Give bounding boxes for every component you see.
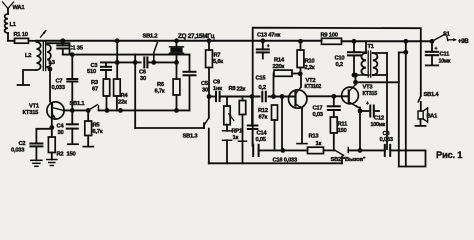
svg-text:+: + — [267, 44, 270, 50]
svg-text:R4: R4 — [121, 93, 129, 99]
svg-text:150: 150 — [338, 128, 347, 134]
svg-text:R9 100: R9 100 — [321, 33, 338, 39]
svg-text:VT3: VT3 — [363, 85, 374, 91]
svg-text:0,033: 0,033 — [380, 137, 394, 143]
svg-text:R11: R11 — [338, 122, 349, 128]
svg-text:30: 30 — [58, 130, 64, 136]
svg-text:1к: 1к — [316, 141, 322, 147]
svg-text:0,2: 0,2 — [259, 85, 266, 91]
svg-text:VT1: VT1 — [29, 104, 40, 110]
svg-text:R14: R14 — [274, 58, 285, 64]
svg-text:Т1: Т1 — [368, 44, 375, 50]
svg-text:C1 35: C1 35 — [69, 46, 84, 52]
svg-text:100мк: 100мк — [371, 122, 386, 128]
svg-text:67к: 67к — [259, 115, 268, 121]
svg-text:WA1: WA1 — [13, 5, 26, 11]
svg-text:КТ315: КТ315 — [23, 110, 40, 116]
svg-text:1к: 1к — [233, 135, 239, 141]
svg-text:0,03: 0,03 — [313, 112, 324, 118]
svg-text:C15: C15 — [256, 76, 267, 82]
svg-text:+: + — [435, 46, 438, 52]
svg-text:C2: C2 — [19, 141, 26, 147]
svg-text:30: 30 — [140, 76, 146, 82]
svg-text:6,7к: 6,7к — [93, 129, 103, 135]
svg-text:RP1: RP1 — [232, 129, 244, 135]
svg-text:C11: C11 — [440, 52, 451, 58]
svg-text:R1 10: R1 10 — [14, 32, 28, 38]
svg-text:L1: L1 — [10, 22, 17, 28]
svg-text:10мк: 10мк — [439, 58, 451, 64]
svg-text:C4: C4 — [57, 124, 65, 130]
svg-text:R2: R2 — [57, 152, 64, 158]
svg-text:С12: С12 — [374, 116, 384, 122]
svg-text:C17: C17 — [313, 106, 323, 112]
svg-text:С9: С9 — [213, 80, 221, 86]
svg-text:SB1.4: SB1.4 — [424, 92, 440, 98]
svg-text:30: 30 — [202, 88, 208, 94]
svg-text:SB2 “Вызов”: SB2 “Вызов” — [331, 157, 366, 163]
svg-text:L3: L3 — [49, 60, 56, 66]
svg-text:+: + — [366, 101, 369, 107]
svg-text:5,6к: 5,6к — [213, 59, 223, 65]
svg-text:R3: R3 — [91, 80, 99, 86]
svg-text:0,05: 0,05 — [256, 137, 267, 143]
svg-text:R7: R7 — [214, 53, 221, 59]
svg-text:С10: С10 — [335, 56, 345, 62]
svg-text:R13: R13 — [309, 134, 320, 140]
svg-text:0,2: 0,2 — [336, 62, 343, 68]
svg-text:C6: C6 — [139, 70, 147, 76]
svg-text:L2: L2 — [25, 53, 31, 59]
svg-text:22к: 22к — [118, 100, 127, 106]
svg-text:67: 67 — [92, 87, 98, 93]
svg-text:R6: R6 — [157, 82, 165, 88]
svg-text:КТ315: КТ315 — [363, 91, 378, 97]
svg-text:R8: R8 — [229, 86, 237, 92]
svg-text:SB1.1: SB1.1 — [70, 101, 86, 107]
svg-text:R12: R12 — [258, 108, 268, 114]
svg-text:1нк: 1нк — [213, 86, 222, 92]
svg-text:С5: С5 — [201, 81, 209, 87]
svg-text:C13 47нк: C13 47нк — [257, 33, 280, 39]
svg-text:0,033: 0,033 — [11, 147, 25, 153]
svg-text:КТ3102: КТ3102 — [305, 84, 322, 90]
svg-text:0,033: 0,033 — [52, 85, 66, 91]
svg-text:220к: 220к — [273, 64, 285, 70]
svg-text:22к: 22к — [237, 87, 246, 93]
svg-text:R5: R5 — [93, 123, 101, 129]
svg-text:+9В: +9В — [458, 39, 469, 45]
svg-text:6,7к: 6,7к — [155, 89, 165, 95]
svg-text:SB1.2: SB1.2 — [143, 34, 158, 40]
svg-text:C14: C14 — [257, 131, 268, 137]
svg-text:R10: R10 — [305, 59, 315, 65]
svg-text:SB1.3: SB1.3 — [183, 134, 199, 140]
svg-text:C7: C7 — [56, 79, 63, 85]
svg-text:510: 510 — [87, 69, 96, 75]
svg-text:ВА1: ВА1 — [427, 114, 439, 120]
svg-text:Рис. 1: Рис. 1 — [436, 149, 462, 160]
svg-text:150: 150 — [67, 152, 76, 158]
svg-text:2,2к: 2,2к — [305, 65, 315, 71]
